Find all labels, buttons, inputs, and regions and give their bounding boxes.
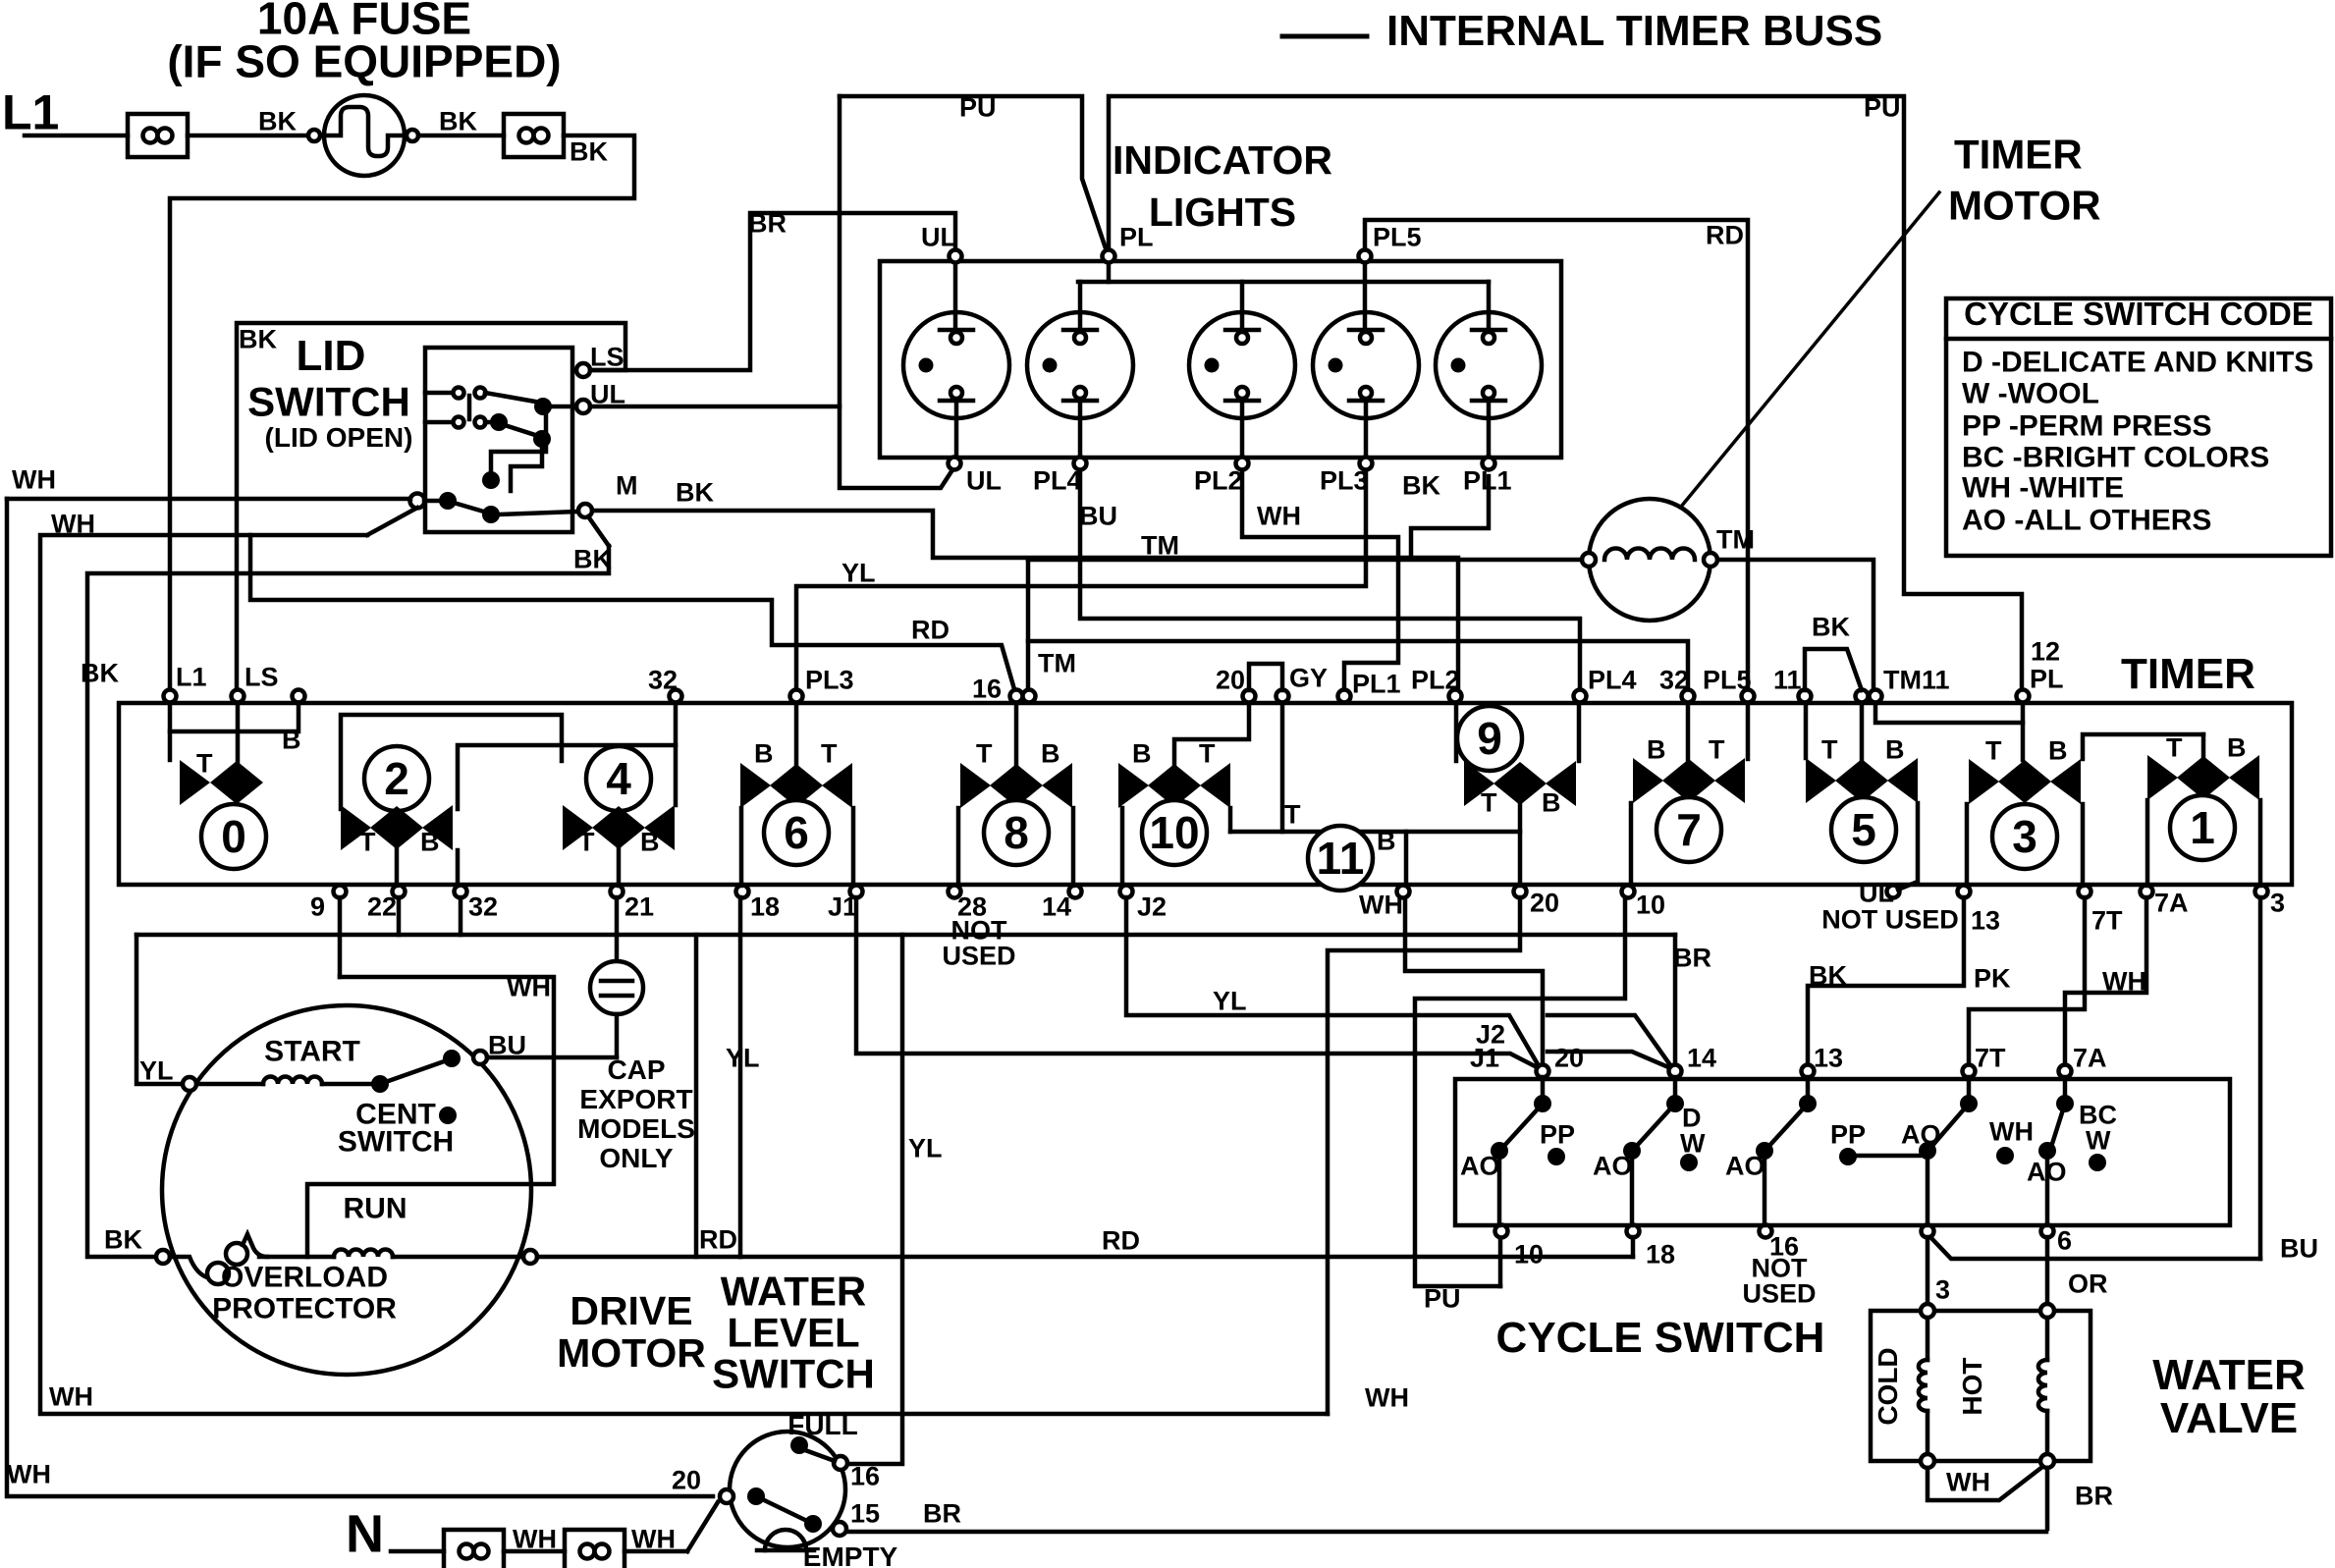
cam switch 9 labels — [1481, 787, 1561, 817]
svg-text:PROTECTOR: PROTECTOR — [212, 1293, 397, 1325]
cam switch 7 labels — [1647, 734, 1725, 764]
cam 6 circle — [764, 800, 829, 865]
wire RD PL5 run — [1365, 220, 1748, 692]
svg-text:BU: BU — [1079, 501, 1117, 530]
connector J-B — [504, 114, 564, 157]
cam switch 5 diamond — [1835, 759, 1888, 802]
cam switch 1 triangles — [2147, 755, 2259, 800]
lid switch contact dot b — [485, 413, 538, 436]
wl common dot — [747, 1487, 765, 1505]
valve cold coil — [1919, 1318, 1928, 1454]
start contact dot — [443, 1050, 461, 1067]
cam switch 4 labels — [578, 827, 660, 856]
svg-text:USED: USED — [942, 941, 1015, 970]
wire WH to timer WH label — [1365, 1382, 1409, 1412]
svg-text:TIMER: TIMER — [2121, 650, 2255, 698]
svg-text:B: B — [1132, 738, 1152, 768]
timer box — [119, 703, 2292, 885]
wire 22 down — [397, 897, 402, 935]
BK jumper 11-TM11 — [1805, 612, 1862, 690]
wire YL 10 run — [1415, 897, 1625, 1286]
svg-text:BK: BK — [439, 106, 477, 135]
svg-text:YL: YL — [842, 558, 876, 587]
cam switch 6 legs — [741, 808, 853, 886]
label WATER LEVEL SWITCH — [712, 1269, 875, 1397]
cam switch 3 triangles — [1969, 759, 2081, 804]
connector N-A — [444, 1530, 504, 1568]
legend internal timer buss line — [1282, 34, 1367, 39]
svg-text:W -WOOL: W -WOOL — [1962, 378, 2099, 410]
wire WH valve jumper — [1928, 1467, 2042, 1500]
wire WH 1 label — [12, 464, 56, 494]
wire 7A run WH — [2065, 897, 2146, 1065]
cam switch 7 feed 32 — [1686, 703, 1691, 759]
fuse F1 — [324, 95, 405, 176]
cam switch 0 feed LS — [236, 703, 241, 762]
lid switch blade — [454, 503, 487, 513]
wire long BR horizontal — [136, 933, 1675, 938]
terminal PL2 bottom — [1194, 458, 1249, 496]
svg-text:1: 1 — [2190, 802, 2215, 853]
cam switch 11 B leg — [1404, 832, 1409, 886]
svg-text:L1: L1 — [176, 662, 207, 691]
svg-text:PL5: PL5 — [1703, 665, 1752, 694]
lid switch contact dot UL — [485, 393, 576, 415]
terminal 16 wl — [834, 1456, 880, 1490]
lid switch contact a1 — [425, 388, 486, 420]
svg-text:EMPTY: EMPTY — [803, 1541, 898, 1568]
svg-text:10: 10 — [1149, 807, 1199, 858]
wire BU to cap — [487, 1055, 617, 1060]
wire 21 down to cap — [615, 897, 620, 961]
svg-text:PL4: PL4 — [1588, 665, 1637, 694]
drive motor M1 — [162, 1005, 531, 1375]
timer top terminal 16 at 1035 — [972, 674, 1023, 703]
svg-text:3: 3 — [2012, 811, 2037, 862]
label 28 NOT USED — [942, 915, 1015, 970]
svg-text:LS: LS — [590, 342, 624, 371]
svg-text:CYCLE SWITCH CODE: CYCLE SWITCH CODE — [1964, 296, 2313, 332]
wire YL PL3 to timer PL3 — [796, 470, 1366, 692]
cam switch 8 feed 16 — [1014, 703, 1019, 765]
cam switch 4 feed 32 — [674, 703, 679, 805]
svg-text:BK: BK — [81, 658, 119, 687]
cam switch 5 T riser — [1804, 703, 1809, 758]
svg-text:M: M — [616, 470, 638, 500]
svg-text:PL: PL — [1119, 222, 1154, 251]
svg-text:2: 2 — [384, 753, 409, 804]
start switch pivot dot — [371, 1075, 389, 1093]
cycle sw B — [1623, 1077, 1684, 1225]
svg-text:PL4: PL4 — [1033, 465, 1082, 495]
svg-text:WH: WH — [1365, 1382, 1409, 1412]
svg-text:YL: YL — [1213, 986, 1247, 1015]
cam switch 7 B riser — [1746, 703, 1751, 759]
svg-text:14: 14 — [1687, 1043, 1716, 1072]
svg-text:BK: BK — [239, 324, 277, 353]
wire RD long — [740, 1225, 1633, 1257]
cam switch 0 feed L1 — [168, 703, 173, 760]
lid switch contact a2 — [425, 417, 486, 428]
wire BK M left run — [87, 546, 609, 1257]
svg-text:J2: J2 — [1476, 1019, 1505, 1049]
wire PU loop left vertical — [840, 96, 953, 488]
wire 13 run BK — [1808, 897, 1964, 1065]
timer bottom terminal 9 — [310, 886, 347, 922]
cycle bottom terminal 18 — [1627, 1225, 1676, 1270]
timer bottom terminal J1 — [828, 886, 863, 922]
cam switch 4 to 21 — [617, 849, 622, 886]
wire BK label 3 — [570, 136, 608, 166]
cycle top terminal 13 — [1802, 1043, 1844, 1077]
svg-text:AO: AO — [1901, 1119, 1941, 1149]
cam switch 0 diamond — [210, 761, 263, 804]
svg-text:WH: WH — [1989, 1116, 2034, 1146]
svg-text:7T: 7T — [2091, 905, 2123, 935]
svg-text:D -DELICATE AND KNITS: D -DELICATE AND KNITS — [1962, 347, 2313, 379]
svg-text:WH: WH — [507, 972, 551, 1001]
svg-text:W: W — [2086, 1125, 2111, 1155]
svg-text:(IF SO EQUIPPED): (IF SO EQUIPPED) — [167, 36, 561, 87]
svg-text:T: T — [1481, 787, 1497, 817]
svg-text:10: 10 — [1636, 890, 1665, 919]
label OVERLOAD PROTECTOR — [212, 1262, 397, 1325]
cam switch 5 triangles — [1806, 758, 1918, 803]
label WATER VALVE — [2152, 1351, 2306, 1442]
svg-text:10: 10 — [1514, 1239, 1544, 1269]
label DRIVE MOTOR — [557, 1288, 706, 1376]
svg-text:PU: PU — [1864, 92, 1901, 122]
valve bottom cold terminal — [1921, 1454, 1934, 1468]
svg-text:B: B — [420, 827, 440, 856]
timer top terminal GY at 1306 — [1276, 663, 1329, 702]
wire WH 9 to cent — [307, 972, 554, 1257]
svg-text:OVERLOAD: OVERLOAD — [221, 1262, 388, 1294]
lamp PL2 — [1189, 282, 1295, 457]
terminal UL top — [921, 222, 962, 262]
label HOT — [1957, 1357, 1987, 1415]
svg-text:J1: J1 — [828, 892, 857, 921]
cam 10 circle — [1142, 800, 1207, 865]
svg-text:VALVE: VALVE — [2160, 1394, 2298, 1442]
valve bottom hot terminal — [2040, 1454, 2054, 1468]
wire J2 seg to 14 — [1548, 1015, 1673, 1069]
wire connector to fuse — [188, 134, 308, 138]
svg-text:B: B — [2227, 732, 2247, 762]
svg-text:DRIVE: DRIVE — [570, 1288, 692, 1333]
svg-text:NOT USED: NOT USED — [1821, 904, 1959, 934]
svg-text:T: T — [578, 827, 595, 856]
label CYCLE SWITCH CODE — [1964, 296, 2313, 332]
water level switch body — [730, 1432, 845, 1547]
wire BK label near M — [573, 544, 612, 573]
svg-text:20: 20 — [1216, 665, 1245, 694]
cam switch 9 triangles — [1464, 761, 1576, 806]
svg-text:B: B — [282, 725, 301, 754]
cycle sw D — [1919, 1077, 1978, 1225]
svg-text:TM: TM — [1716, 524, 1755, 554]
svg-text:WH -WHITE: WH -WHITE — [1962, 472, 2124, 505]
terminal RD — [523, 1224, 737, 1264]
cam switch 3 B leg — [2083, 734, 2203, 886]
lid switch dot e — [482, 506, 578, 523]
svg-text:20: 20 — [1530, 888, 1559, 917]
lid switch pivot — [410, 494, 425, 509]
svg-text:WH: WH — [49, 1381, 93, 1411]
svg-text:7A: 7A — [2154, 888, 2189, 917]
timer top terminal 32 at 1719 — [1659, 665, 1695, 702]
label 12 PL — [2030, 636, 2064, 693]
wire PU label 1 — [959, 92, 997, 122]
label INDICATOR LIGHTS — [1113, 137, 1332, 235]
cam switch 9 diamond — [1493, 762, 1547, 805]
cam 11 circle — [1308, 826, 1373, 891]
wire BU label — [1079, 501, 1117, 530]
svg-text:B: B — [1647, 734, 1666, 764]
svg-text:T: T — [1709, 734, 1725, 764]
svg-text:SWITCH: SWITCH — [338, 1126, 454, 1159]
svg-text:MODELS: MODELS — [577, 1113, 695, 1144]
timer top terminal PL4 at 1609 — [1574, 665, 1637, 702]
wire BK branch to PL1 lamp — [1411, 476, 1489, 558]
svg-text:32: 32 — [468, 892, 498, 921]
wire full dot to 16 — [805, 1450, 835, 1461]
svg-text:RD: RD — [699, 1224, 737, 1254]
svg-text:T: T — [821, 738, 838, 768]
wire YL to water level 16 — [848, 935, 943, 1464]
wire YL label — [842, 558, 876, 587]
legend INTERNAL TIMER BUSS — [1386, 7, 1882, 55]
timer motor M2 — [1582, 499, 1717, 621]
cam switch 1 T leg — [2145, 800, 2150, 886]
svg-text:TM11: TM11 — [1883, 665, 1950, 694]
svg-text:TIMER: TIMER — [1954, 132, 2083, 178]
cam switch 1 feed — [2201, 734, 2206, 756]
svg-text:13: 13 — [1814, 1043, 1843, 1072]
svg-text:T: T — [1284, 799, 1301, 829]
svg-text:20: 20 — [672, 1465, 701, 1494]
label LID SWITCH — [247, 332, 412, 453]
svg-text:SWITCH: SWITCH — [712, 1351, 875, 1397]
svg-text:20: 20 — [1554, 1043, 1584, 1072]
label EMPTY — [803, 1541, 898, 1568]
svg-text:B: B — [754, 738, 774, 768]
code PP -PERM PRESS — [1962, 410, 2212, 443]
wire YL left leg — [136, 935, 183, 1085]
label TIMER — [2121, 650, 2255, 698]
cam switch 2 to 22 — [395, 849, 400, 886]
cam switch 2 triangles — [341, 805, 453, 850]
svg-text:BC -BRIGHT COLORS: BC -BRIGHT COLORS — [1962, 442, 2269, 474]
cam switch 2 diamond — [370, 806, 423, 849]
cam switch 10 legs — [1122, 808, 1230, 886]
svg-text:BK: BK — [258, 106, 297, 135]
cycle bottom terminal 10 — [1495, 1225, 1545, 1270]
cycle sw C — [1756, 1077, 1817, 1225]
svg-text:BR: BR — [1673, 943, 1711, 972]
svg-text:SWITCH: SWITCH — [247, 379, 410, 425]
terminal LS — [576, 342, 624, 377]
svg-text:WH: WH — [7, 1459, 51, 1488]
wire BK label mid — [676, 477, 714, 507]
lamp PL1 — [1436, 282, 1542, 457]
svg-text:13: 13 — [1971, 905, 2000, 935]
cam 3 circle — [1992, 804, 2057, 869]
wire LS loop from timer to lid switch — [237, 323, 625, 696]
lamp UL — [903, 263, 1009, 457]
svg-text:T: T — [1985, 735, 2002, 765]
svg-text:BK: BK — [570, 136, 608, 166]
wire fuse to connector2 — [418, 134, 504, 138]
cam switch 1 B leg — [2258, 800, 2263, 886]
cam switch 5 feed TM11 — [1860, 703, 1865, 759]
svg-text:8: 8 — [1004, 807, 1029, 858]
label TIMER MOTOR — [1948, 132, 2101, 229]
timer top terminal PL3 at 811 — [790, 665, 854, 702]
cam switch 11 bar — [1230, 830, 1520, 835]
svg-text:UL: UL — [921, 222, 956, 251]
svg-text:32: 32 — [648, 665, 678, 694]
wl blade — [756, 1496, 811, 1523]
svg-text:11: 11 — [1773, 665, 1802, 694]
cam switch 5 B leg — [1898, 803, 1918, 890]
cam switch 4 triangles — [563, 805, 675, 850]
wire RD label top — [1706, 220, 1744, 249]
cam switch 9 B riser — [1577, 703, 1582, 761]
cycle bottom terminal valve3 — [1922, 1225, 1934, 1238]
svg-text:YL: YL — [726, 1043, 760, 1072]
wire cycle 18 left — [1631, 1237, 1636, 1257]
svg-text:T: T — [196, 748, 213, 778]
timer bottom terminal UL — [1859, 878, 1900, 907]
cam 0 circle — [201, 804, 266, 869]
wire BU PL4 to timer PL4 — [1080, 470, 1580, 692]
GY jumper 20-GY — [1249, 664, 1282, 690]
svg-text:BU: BU — [2280, 1233, 2318, 1263]
svg-text:21: 21 — [624, 892, 654, 921]
wire cycle 10 stub — [1498, 1237, 1503, 1286]
svg-text:T: T — [1199, 738, 1216, 768]
timer top terminal TM at 1048 — [1023, 648, 1076, 702]
terminal 15 wl — [833, 1498, 880, 1536]
svg-text:USED: USED — [1742, 1278, 1816, 1308]
wire UL lid to bus — [590, 405, 840, 409]
svg-text:UL: UL — [1859, 878, 1894, 907]
cycle bottom terminal 6 — [2041, 1225, 2073, 1256]
cycle bottom terminal 16 — [1760, 1225, 1800, 1262]
svg-text:LEVEL: LEVEL — [727, 1310, 859, 1356]
svg-text:FULL: FULL — [787, 1410, 858, 1440]
wl pedestal — [757, 1530, 814, 1550]
timer bottom terminal 3 — [2255, 886, 2286, 918]
terminal BU — [473, 1030, 526, 1064]
water valve box — [1871, 1311, 2091, 1461]
svg-text:BR: BR — [2075, 1481, 2113, 1510]
svg-text:PL2: PL2 — [1411, 665, 1460, 694]
svg-text:PK: PK — [1974, 963, 2011, 993]
cam switch 8 diamond — [990, 764, 1043, 807]
svg-text:7A: 7A — [2073, 1043, 2107, 1072]
wire BR label 1 — [923, 1498, 961, 1528]
svg-text:BK: BK — [573, 544, 612, 573]
svg-text:PL3: PL3 — [1320, 465, 1369, 495]
svg-text:WH: WH — [1257, 501, 1301, 530]
wire J1 run — [856, 897, 1541, 1072]
terminal PL top — [1103, 222, 1154, 262]
svg-text:AO: AO — [1460, 1151, 1500, 1180]
svg-text:B: B — [2048, 735, 2068, 765]
svg-text:WH: WH — [12, 464, 56, 494]
fuse terminal right — [407, 130, 418, 141]
lamp PL4 — [1027, 282, 1133, 457]
cam 8 circle — [984, 800, 1049, 865]
start switch blade — [380, 1059, 450, 1084]
cam switch 2 T riser — [341, 715, 562, 809]
terminal YL — [183, 1077, 196, 1091]
cam switch 8 triangles — [960, 763, 1072, 808]
cam switch 3 T leg — [1965, 804, 1970, 886]
svg-text:PP -PERM PRESS: PP -PERM PRESS — [1962, 410, 2212, 443]
svg-text:BK: BK — [1812, 612, 1850, 641]
wire BR to cycle 14 — [1673, 935, 1711, 1065]
svg-text:PL1: PL1 — [1463, 465, 1512, 495]
wire RD to 18 leg — [537, 1255, 740, 1260]
cam switch 1 diamond — [2177, 756, 2230, 799]
connector J-A — [128, 114, 188, 157]
wire TM label mid — [1141, 530, 1179, 560]
timer bottom terminal 13 — [1958, 886, 2001, 936]
cam 4 circle — [586, 746, 651, 811]
timer top terminal PL5 at 1780 — [1703, 665, 1755, 702]
wire 6 drop OR — [2047, 1237, 2108, 1304]
lid switch S1 inner box — [425, 348, 572, 532]
cam switch 3 diamond — [1998, 760, 2051, 803]
wire PU label 2 — [1864, 92, 1901, 122]
svg-text:TM: TM — [1141, 530, 1179, 560]
cam switch 3 feed 12PL — [2021, 703, 2026, 760]
wire J1 label YL — [726, 1043, 760, 1072]
svg-text:N: N — [346, 1505, 384, 1564]
cam switch 10 feed 20 — [1174, 703, 1249, 765]
svg-text:YL: YL — [139, 1055, 174, 1085]
wire WH2 run — [40, 535, 1328, 1414]
label CYCLE SWITCH — [1496, 1314, 1825, 1362]
cam switch 0 B jumper — [170, 703, 301, 754]
timer top terminal LS at 242 — [232, 662, 279, 702]
cam switch 1 labels — [2166, 732, 2247, 762]
timer bottom terminal 28 — [949, 886, 988, 922]
label FULL — [787, 1410, 858, 1440]
cam 7 circle — [1656, 797, 1721, 862]
cycle top terminal 7A — [2059, 1043, 2107, 1077]
wire WH label n2 — [631, 1524, 676, 1553]
svg-text:GY: GY — [1289, 663, 1328, 692]
terminal BK — [104, 1224, 170, 1264]
svg-text:BR: BR — [923, 1498, 961, 1528]
wire BK M to PL2 timer — [592, 511, 1458, 690]
svg-text:0: 0 — [221, 811, 246, 862]
svg-text:EXPORT: EXPORT — [579, 1084, 692, 1114]
label 10A FUSE title — [167, 0, 561, 87]
wire J2 run — [1126, 897, 1541, 1069]
timer top terminal 32 at 688 — [648, 665, 682, 702]
cam switch 6 triangles — [740, 763, 852, 808]
svg-text:MOTOR: MOTOR — [1948, 183, 2101, 229]
wire WH1 bottom label — [7, 1459, 51, 1488]
svg-text:T: T — [2166, 732, 2183, 762]
valve hot terminal — [2040, 1304, 2054, 1318]
svg-text:L1: L1 — [2, 85, 59, 140]
